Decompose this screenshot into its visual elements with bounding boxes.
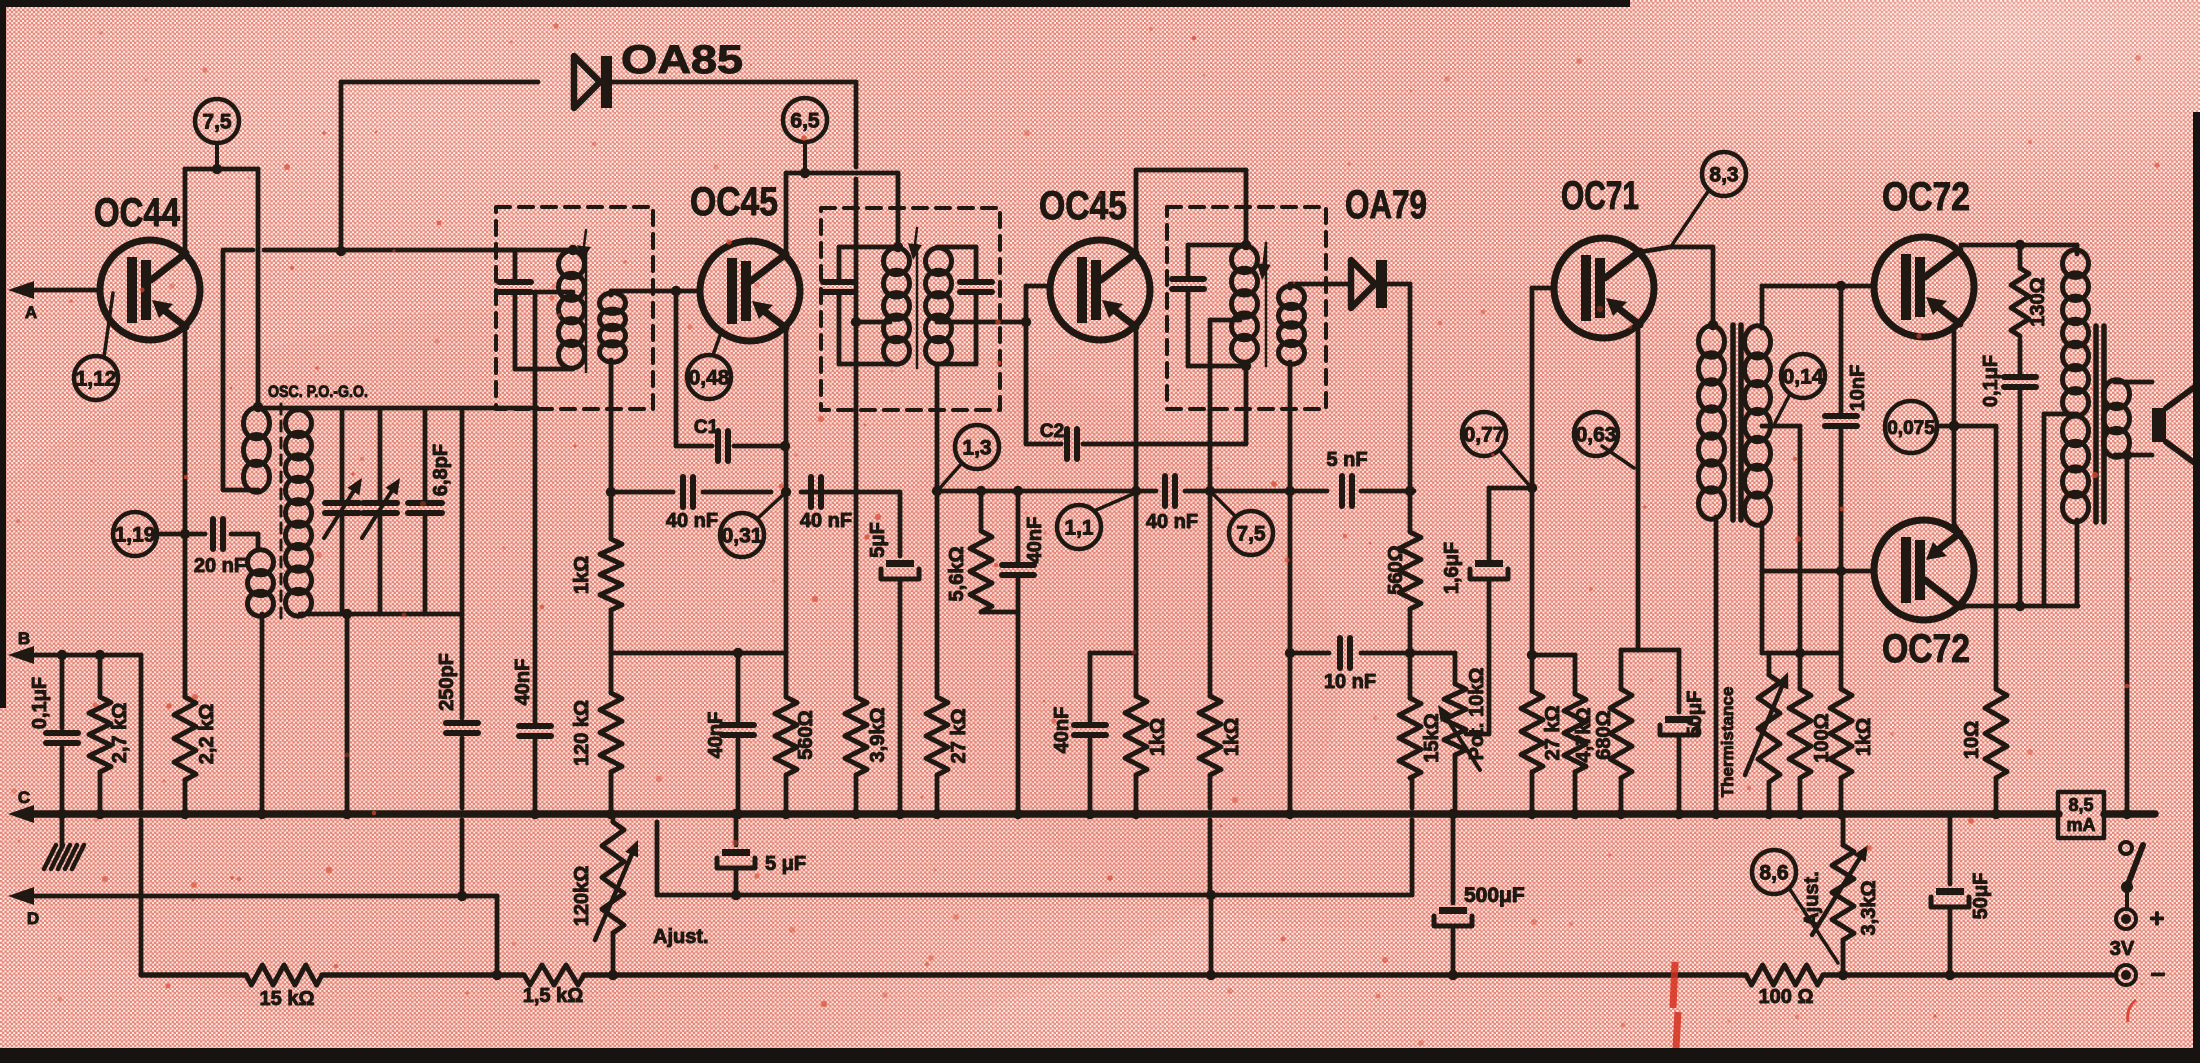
speaker (2152, 386, 2196, 464)
svg-text:0,075: 0,075 (1887, 418, 1935, 439)
svg-text:B: B (18, 629, 30, 648)
resistor 5,6 k-ohm (946, 491, 992, 612)
node junction bottom 1950 (1945, 970, 1955, 980)
svg-text:−: − (2150, 959, 2165, 989)
wire detector row 2 (1185, 489, 1327, 494)
wire 3,9k bus (854, 775, 859, 814)
node junction 5uF bus (895, 809, 905, 819)
svg-text:1,5 kΩ: 1,5 kΩ (523, 985, 584, 1007)
wire detector row (937, 489, 1156, 494)
coil oscillator winding B (248, 550, 274, 616)
pointer 0,48 (713, 330, 722, 355)
wire 27k bus (935, 775, 940, 814)
switch (2120, 842, 2143, 908)
pointer 7,5 right (1213, 494, 1236, 517)
wire OA85 anode (341, 80, 538, 85)
node junction therm bus (1764, 809, 1774, 819)
wire 27k-2 bus (1530, 772, 1535, 814)
node junction 50uF bus (1674, 809, 1684, 819)
node junction 40nF bypass bus (1085, 809, 1095, 819)
pointer 1,1 (1094, 494, 1133, 511)
wire IF3 primary bottom (1188, 364, 1246, 369)
wire 1k to 653 (609, 610, 614, 653)
diode OA85 (574, 38, 743, 108)
wire D rail to bottom (495, 896, 500, 975)
node junction IF2 coil top (893, 242, 903, 252)
wire 10ohm line (1994, 426, 1999, 689)
node junction 40nF 653 (733, 648, 743, 658)
wire OC72a collector out (1961, 243, 2077, 248)
capacitor IF1 primary (497, 250, 531, 369)
voltage circle 0,63 (1574, 412, 1618, 456)
svg-text:Thermistance: Thermistance (1718, 687, 1737, 798)
node junction tap row (1205, 486, 1215, 496)
coil IF3 secondary (1279, 286, 1305, 364)
transistor OC72 lower (1874, 520, 1974, 671)
wire 1018 to bus (1016, 612, 1021, 814)
capacitor variable tuning 1 (324, 408, 362, 614)
svg-text:500μF: 500μF (1464, 884, 1525, 907)
wire 6,5 drop (803, 142, 807, 173)
wire OC71 collector (1606, 247, 1713, 325)
wire 1,6uF to base line (1489, 486, 1532, 491)
resistor 1 k-ohm no2 (1199, 696, 1243, 775)
resistor 27 k-ohm no2 (1521, 691, 1564, 772)
voltage circle 0,48 (687, 355, 731, 399)
node junction 6,5 (800, 168, 810, 178)
node junction return bus (2122, 809, 2132, 819)
svg-text:3,3kΩ: 3,3kΩ (1858, 881, 1880, 936)
svg-text:40nF: 40nF (1024, 517, 1046, 564)
wire OC45-1 emitter drop (784, 328, 789, 492)
wire IF2 tap (856, 320, 890, 325)
node junction 120k bus (606, 809, 616, 819)
node junction 0,1uF collector (2015, 601, 2025, 611)
resistor 680 ohm (1593, 689, 1632, 778)
node junction detector out (1405, 486, 1415, 496)
capacitor C2 (1026, 421, 1246, 459)
capacitor 40nF row3 (1146, 476, 1198, 533)
wire IF2 primary bottom (839, 362, 898, 367)
capacitor 40nF row1 (666, 477, 718, 532)
coil IF3 primary (1232, 246, 1258, 362)
node junction 5,6k row (976, 486, 986, 496)
wire OC72a emitter drop (1952, 328, 1957, 522)
node junction 40nF bus (530, 809, 540, 819)
svg-text:560Ω: 560Ω (1385, 545, 1407, 594)
capacitor 40nF emitter bypass (1051, 707, 1106, 814)
svg-text:C1: C1 (694, 417, 719, 438)
resistor adjustable 3,3k Ajust (1801, 814, 1880, 975)
wire 1k no1 bus (1134, 775, 1139, 814)
wire OC71 base (1532, 286, 1554, 291)
wire emitter T left (1621, 650, 1638, 689)
resistor 100 ohm bias (1789, 653, 1833, 778)
capacitor 10nF (1324, 638, 1376, 693)
node junction osc B bus (257, 809, 267, 819)
wire thermistance bus (1767, 782, 1772, 814)
wire pot top (1453, 653, 1458, 684)
svg-text:100Ω: 100Ω (1811, 713, 1833, 762)
svg-text:Ajust.: Ajust. (1801, 871, 1823, 927)
node junction bottom 1211 (1206, 970, 1216, 980)
node D arrow (8, 887, 39, 928)
wire B corner down (hops bus) (139, 655, 144, 975)
svg-text:0,63: 0,63 (1576, 424, 1617, 447)
node junction 1k bias bus (1836, 809, 1846, 819)
svg-text:OC44: OC44 (94, 191, 181, 235)
wire speaker return (2125, 455, 2130, 814)
svg-text:1,12: 1,12 (76, 368, 117, 391)
resistor 560 ohm no1 (775, 697, 817, 775)
svg-text:6,5: 6,5 (790, 110, 820, 133)
voltage circle 0,77 (1462, 412, 1506, 456)
wire IF2 sec out (937, 320, 1026, 325)
svg-text:0,77: 0,77 (1464, 424, 1505, 447)
wire output tap (2044, 414, 2077, 606)
wire IF1 primary top (497, 248, 573, 253)
resistor 1 k-ohm no1 (1125, 696, 1169, 775)
resistor 1,5 k-ohm (523, 965, 584, 1007)
wire B rail (34, 653, 141, 658)
wire 4,7k jog (1532, 655, 1575, 694)
node junction 27k bus (932, 809, 942, 819)
capacitor 20nF (194, 519, 246, 577)
pointer 8,6 (1789, 888, 1838, 963)
wire detector row 3 (1361, 489, 1414, 494)
wire IF2 feed drop (896, 173, 901, 247)
capacitor 250pF (436, 410, 478, 896)
node junction 497 bottom (492, 970, 502, 980)
svg-text:Ajust.: Ajust. (653, 926, 709, 948)
wire emitter2 to 1k (1134, 491, 1139, 696)
node junction emitters (1949, 421, 1960, 432)
wire lower ground rail (657, 822, 1211, 895)
wire 7,5 drop (215, 143, 219, 169)
wire OC72a base (1872, 284, 1877, 289)
node junction 130ohm top (2015, 240, 2025, 250)
wire IF1 secondary bottom drop (609, 360, 614, 492)
wire OC45-2 base (1026, 286, 1050, 322)
label OSC. PO-GO. (268, 382, 368, 401)
wire IF3 core (1257, 243, 1271, 366)
svg-text:40nF: 40nF (1051, 707, 1073, 754)
svg-text:250pF: 250pF (436, 653, 458, 711)
svg-text:27 kΩ: 27 kΩ (948, 709, 970, 764)
battery minus terminal (2116, 959, 2166, 989)
node junction 5uF lower bus (731, 809, 741, 819)
node junction 2,7k top (95, 650, 105, 660)
wire 560-2 to 653 (1408, 609, 1413, 653)
wire emitter to 560 (784, 492, 789, 697)
svg-text:100 Ω: 100 Ω (1759, 986, 1814, 1008)
svg-text:7,5: 7,5 (1236, 523, 1266, 546)
node junction emitter row (781, 487, 791, 497)
battery plus terminal (2116, 903, 2165, 933)
node junction 2,2k bus (180, 809, 190, 819)
wire 5uF drop (898, 492, 903, 556)
wire IF2 sec return drop (935, 364, 940, 491)
svg-text:OSC. P.O.-G.O.: OSC. P.O.-G.O. (268, 382, 368, 401)
resistor 27 k-ohm (926, 491, 970, 775)
node junction 250pF/D (457, 891, 467, 901)
wire 653 rail (611, 651, 786, 656)
coil driver primary (1699, 326, 1725, 519)
resistor 120 k-ohm (571, 653, 622, 772)
coil output secondary (2104, 380, 2130, 457)
capacitor electrolytic 500uF (1434, 814, 1525, 975)
resistor 3,9 k-ohm (845, 697, 889, 775)
wire 0,075 emitter rail (1937, 424, 1996, 429)
node junction sec3 bus (1285, 809, 1295, 819)
capacitor electrolytic 50uF bottom (1931, 814, 1992, 975)
voltage circle 7,5 right (1229, 511, 1273, 555)
wire bus after meter (2104, 810, 2155, 818)
wire row mid (703, 490, 771, 495)
node junction 1018 bus (1013, 809, 1023, 819)
node junction osc top (253, 402, 263, 412)
svg-text:10 nF: 10 nF (1324, 671, 1376, 693)
wire 4,7k bus (1573, 772, 1578, 814)
resistor 1 k-ohm bias (1830, 653, 1875, 778)
resistor 100 ohm bottom (1746, 965, 1823, 1008)
voltage circle 1,1 (1057, 505, 1101, 549)
node C arrow (8, 788, 34, 823)
svg-text:50μF: 50μF (1970, 873, 1992, 920)
wire OA79 out (1387, 284, 1410, 491)
wire 120k to bus (609, 772, 614, 814)
resistor 2,7 k-ohm (89, 655, 131, 814)
capacitor 10nF push-pull (1825, 286, 1869, 571)
wire bias rail riser (1760, 571, 1765, 653)
node junction lower rail T (1206, 890, 1216, 900)
node junction 40nF top row (1013, 486, 1023, 496)
node junction 0,1uF top (57, 650, 67, 660)
wire IF3 tap drop (1208, 320, 1213, 491)
wire OA85 riser (339, 82, 344, 251)
wire 680 bus (1619, 778, 1624, 814)
capacitor 40nF IF1 tap (512, 659, 551, 814)
wire tap drop (1798, 426, 1803, 653)
svg-text:OA85: OA85 (621, 38, 743, 82)
voltage circle 1,19 (113, 512, 157, 556)
wire 100 bias bus (1798, 778, 1803, 814)
capacitor 5nF row (1326, 449, 1367, 506)
svg-text:Pot. 10kΩ: Pot. 10kΩ (1466, 668, 1488, 761)
svg-text:5,6kΩ: 5,6kΩ (946, 547, 968, 602)
wire osc winding A bottom elbow (223, 252, 258, 490)
wire osc bottom rail (300, 612, 462, 617)
svg-text:1kΩ: 1kΩ (1221, 718, 1243, 756)
wire OC44 emitter drop (183, 327, 188, 697)
node junction 560 bus (781, 809, 791, 819)
wire speaker bottom lead (2115, 453, 2152, 458)
svg-text:OC71: OC71 (1561, 174, 1639, 218)
wire IF3 tap (1210, 318, 1240, 323)
svg-text:8,6: 8,6 (1759, 862, 1788, 885)
wire bottom rail to bus (345, 614, 350, 814)
capacitor 6,8pF (408, 408, 452, 614)
svg-text:50μF: 50μF (1684, 691, 1706, 738)
capacitor C1 (676, 417, 785, 461)
svg-text:6,8pF: 6,8pF (430, 444, 452, 496)
svg-text:130Ω: 130Ω (2027, 277, 2049, 326)
pointer 0,31 (757, 495, 783, 519)
wire 2,2k to bus (183, 780, 188, 814)
node junction driver prim top (1708, 320, 1718, 330)
voltage circle 7,5 top-left (195, 99, 239, 143)
node junction emitter/20nF (180, 529, 190, 539)
svg-text:27 kΩ: 27 kΩ (1542, 706, 1564, 761)
svg-text:5μF: 5μF (867, 522, 889, 558)
svg-text:0,1μF: 0,1μF (29, 677, 51, 729)
coil IF2 primary (884, 248, 910, 364)
pointer 1,3 (940, 463, 962, 488)
svg-text:10nF: 10nF (1847, 365, 1869, 412)
svg-text:5 nF: 5 nF (1326, 449, 1367, 471)
svg-text:1,3: 1,3 (962, 437, 991, 460)
wire 20nF to osc coil (231, 534, 258, 548)
wire output prim bottom (2075, 520, 2080, 606)
wire 1,19 to 20nF (157, 532, 205, 537)
resistor 10 ohm (1961, 689, 2007, 778)
node junction C1 emitter line (780, 441, 790, 451)
wire IF1 tap drop (533, 292, 538, 722)
node junction 680 bus (1616, 809, 1626, 819)
coil IF1 secondary (600, 293, 626, 362)
voltage circle 6,5 (783, 98, 827, 142)
svg-text:1kΩ: 1kΩ (1853, 718, 1875, 756)
node junction 5uF lower rail (731, 890, 741, 900)
wire main bus C (34, 810, 2059, 818)
resistor 15 k-ohm right (1399, 653, 1421, 778)
capacitor 40nF mid (705, 653, 754, 814)
wire bias rail 653 (1762, 651, 1841, 656)
wire IF2 core (908, 228, 922, 368)
wire 560 to bus (784, 775, 789, 814)
wire tap line down (1208, 491, 1213, 696)
node junction bottom 1843 (1838, 970, 1848, 980)
node junction 4,7k bus (1570, 809, 1580, 819)
resistor 560 ohm no2 (1385, 491, 1421, 609)
node junction IF3 prim bottom (1241, 361, 1251, 371)
node junction bottom rail riser (342, 609, 352, 619)
wire 10nF rail 2 (1361, 651, 1455, 656)
node junction 2,7k bus (95, 809, 105, 819)
node junction 3,9k bus (851, 809, 861, 819)
wire row to 5uF corner (832, 490, 900, 495)
voltage circle 0,31 (720, 513, 764, 557)
wire bottom rail mid2 (584, 972, 1746, 978)
ground symbol (44, 814, 84, 869)
red marker marks bottom right (1673, 962, 1678, 1048)
node B arrow (8, 629, 34, 664)
wire OC71 base bias line (1530, 288, 1535, 691)
capacitor electrolytic 5uF lower (717, 814, 806, 895)
meter 8,5 mA box (2058, 792, 2104, 838)
svg-text:C: C (18, 788, 30, 807)
svg-text:120kΩ: 120kΩ (571, 866, 593, 927)
svg-text:40 nF: 40 nF (1146, 511, 1198, 533)
svg-text:mA: mA (2066, 815, 2095, 835)
svg-text:2,2 kΩ: 2,2 kΩ (196, 704, 218, 765)
coil output primary upper (2063, 250, 2089, 416)
coil IF1 primary (559, 251, 585, 368)
svg-text:1,19: 1,19 (115, 524, 156, 547)
transistor OC71 (1554, 174, 1654, 338)
capacitor 40nF row2 (800, 477, 852, 532)
wire bias drop (1839, 571, 1844, 653)
node junction sec3 row (1285, 486, 1295, 496)
voltage circle 1,3 (955, 425, 999, 469)
wire collector feed to IF1 (hops riser) (223, 248, 497, 253)
node junction driver prim bus (1711, 809, 1721, 819)
wire bottom rail left (141, 972, 246, 978)
svg-text:15 kΩ: 15 kΩ (260, 988, 315, 1010)
transistor OC45 no2 (1039, 184, 1150, 340)
wire driver sec top (1762, 286, 1874, 328)
node junction 4,7k jog (1527, 650, 1537, 660)
capacitor 0,1uF (29, 655, 78, 814)
svg-text:680Ω: 680Ω (1593, 710, 1615, 759)
wire IF3 prim bottom to C2 (1244, 366, 1249, 444)
resistor adjustable 120k Ajust (571, 814, 709, 975)
wire pot to bus (1453, 755, 1458, 814)
capacitor electrolytic 5uF (867, 522, 919, 579)
wire driver sec tap (1762, 424, 1800, 429)
capacitor IF2 secondary (960, 247, 992, 364)
page border top (0, 0, 1630, 7)
wire osc riser right (256, 169, 261, 407)
node junction sec return row (932, 486, 942, 496)
wire lower rail to bottom (1209, 895, 1214, 975)
node junction 347 bus (342, 809, 352, 819)
wire AVC row left (611, 490, 673, 495)
resistor potentiometer 10k (1438, 668, 1488, 770)
node junction 1k no1 bus (1131, 809, 1141, 819)
IF transformer 1 box (496, 207, 653, 409)
svg-text:A: A (25, 303, 37, 322)
voltage circle 0,14 (1781, 354, 1825, 398)
node junction 560-2 653 (1405, 648, 1415, 658)
wire OC44 collector riser (183, 169, 188, 253)
pointer 0,77 (1499, 450, 1528, 484)
wire 5,6k bottom jog (981, 610, 1018, 615)
node junction 0,1uF bus (57, 809, 67, 819)
resistor 4,7 k-ohm (1564, 694, 1595, 772)
wire OC45-2 top bracket (1136, 168, 1246, 173)
svg-text:OC45: OC45 (1039, 184, 1127, 228)
wire IF2 primary top (839, 245, 898, 250)
page border right (2193, 112, 2200, 1063)
svg-text:3V: 3V (2110, 938, 2135, 960)
capacitor 0,1uF output (1980, 340, 2036, 606)
node junction OA85 riser (336, 246, 346, 256)
node junction pot bus (1448, 809, 1458, 819)
svg-text:40 nF: 40 nF (800, 510, 852, 532)
wire OC72b collector out (1961, 606, 2078, 608)
wire IF3 feed drop (1244, 170, 1249, 245)
capacitor 40nF 5,6k bypass (1002, 491, 1046, 612)
resistor 2,2 k-ohm (174, 697, 218, 780)
resistor thermistance (1718, 653, 1788, 797)
wire AVC to 3,9k (854, 322, 859, 697)
resistor 15 k-ohm (246, 965, 322, 1010)
svg-text:D: D (27, 909, 39, 928)
svg-text:40nF: 40nF (705, 712, 727, 759)
svg-text:0,14: 0,14 (1783, 366, 1824, 389)
node junction emitter2 row (1131, 486, 1141, 496)
